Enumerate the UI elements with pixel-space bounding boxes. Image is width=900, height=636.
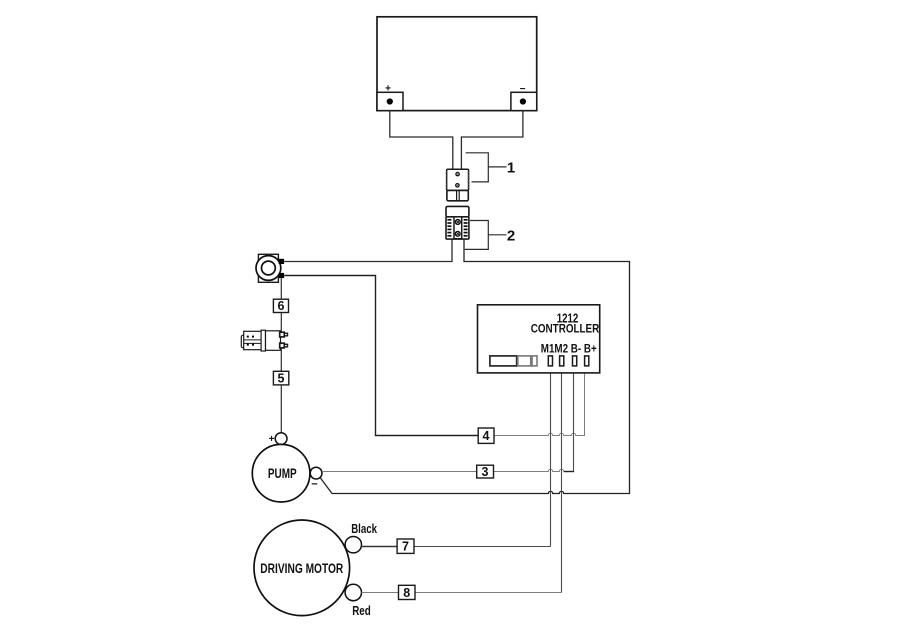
- driving motor black terminal: [345, 537, 361, 553]
- key switch body: [256, 254, 284, 282]
- svg-text:7: 7: [402, 540, 409, 554]
- svg-text:+: +: [269, 434, 275, 445]
- battery positive terminal dot: [387, 98, 393, 104]
- svg-text:CONTROLLER: CONTROLLER: [531, 321, 600, 335]
- pump minus terminal: [310, 467, 322, 479]
- battery outline: [377, 17, 537, 111]
- wire box 6 to solenoid: [280, 313, 282, 333]
- svg-text:+: +: [385, 84, 391, 95]
- svg-text:M1M2 B- B+: M1M2 B- B+: [541, 341, 597, 355]
- svg-text:PUMP: PUMP: [268, 465, 297, 481]
- driving motor red terminal: [345, 584, 361, 600]
- connector 2 body: [446, 206, 469, 239]
- svg-text:3: 3: [482, 465, 489, 479]
- box 5: [273, 371, 288, 385]
- wire 7 box 7 to controller M1: [414, 546, 551, 548]
- box 3: [477, 465, 494, 478]
- svg-text:−: −: [311, 479, 317, 491]
- battery negative terminal box: [511, 92, 537, 110]
- wire key switch bottom terminal to box 4 (dark left part): [284, 276, 478, 436]
- controller terminal M2: [560, 356, 564, 366]
- box 7: [397, 539, 414, 553]
- svg-text:Black: Black: [351, 522, 377, 536]
- battery positive terminal box: [377, 92, 403, 110]
- wire 8 box 8 to controller M2: [415, 592, 562, 594]
- wire key switch down to box 6: [280, 278, 282, 299]
- box 4: [478, 428, 494, 443]
- wire connector 2 to key switch top terminal: [284, 240, 452, 262]
- wire 3 box 3 to controller B- (gray with hops, dark end): [494, 469, 564, 471]
- svg-text:8: 8: [403, 586, 410, 600]
- wire 8 motor red to box 8 (gray): [361, 592, 398, 594]
- controller plug connector large: [490, 356, 517, 366]
- wire solenoid to box 5: [280, 348, 282, 372]
- wire battery negative bus: connector 2 right pin, right side down, to pump minus: [320, 240, 629, 494]
- svg-text:2: 2: [507, 228, 515, 245]
- controller terminal B-: [573, 356, 577, 366]
- wire 7 motor black to box 7 (dark): [361, 546, 397, 548]
- box 6: [273, 299, 288, 312]
- controller plug connector small: [532, 356, 537, 366]
- controller M1 wire vertical: [550, 366, 552, 547]
- solenoid contactor: [241, 330, 287, 351]
- battery negative terminal dot: [520, 98, 526, 104]
- driving motor body: [254, 520, 350, 616]
- wire battery negative to connector 1: [461, 111, 523, 170]
- controller terminal B+: [585, 356, 589, 366]
- wire box 5 to pump plus terminal: [280, 385, 282, 433]
- connector 1 body: [447, 169, 469, 201]
- svg-text:Red: Red: [352, 604, 371, 618]
- pump body: [252, 444, 310, 502]
- controller M2 wire vertical: [561, 366, 563, 593]
- wire battery positive to connector 1: [390, 111, 453, 170]
- pump plus terminal: [275, 433, 287, 445]
- controller B- wire vertical: [573, 366, 575, 472]
- svg-text:6: 6: [278, 299, 285, 313]
- svg-text:DRIVING MOTOR: DRIVING MOTOR: [260, 561, 343, 576]
- svg-text:1: 1: [507, 160, 515, 177]
- svg-text:4: 4: [483, 429, 490, 443]
- controller plug connector medium: [518, 356, 531, 366]
- box 8: [399, 585, 416, 599]
- svg-text:−: −: [520, 84, 526, 95]
- controller terminal M1: [548, 356, 552, 366]
- label 2 bracket: [465, 221, 489, 250]
- wire box 4 to controller B+ (gray, with hops): [494, 366, 585, 436]
- wire 3 pump minus to box 3 (gray): [322, 471, 477, 473]
- controller box: [478, 305, 600, 373]
- svg-text:5: 5: [278, 371, 285, 385]
- label 1 bracket: [466, 153, 489, 182]
